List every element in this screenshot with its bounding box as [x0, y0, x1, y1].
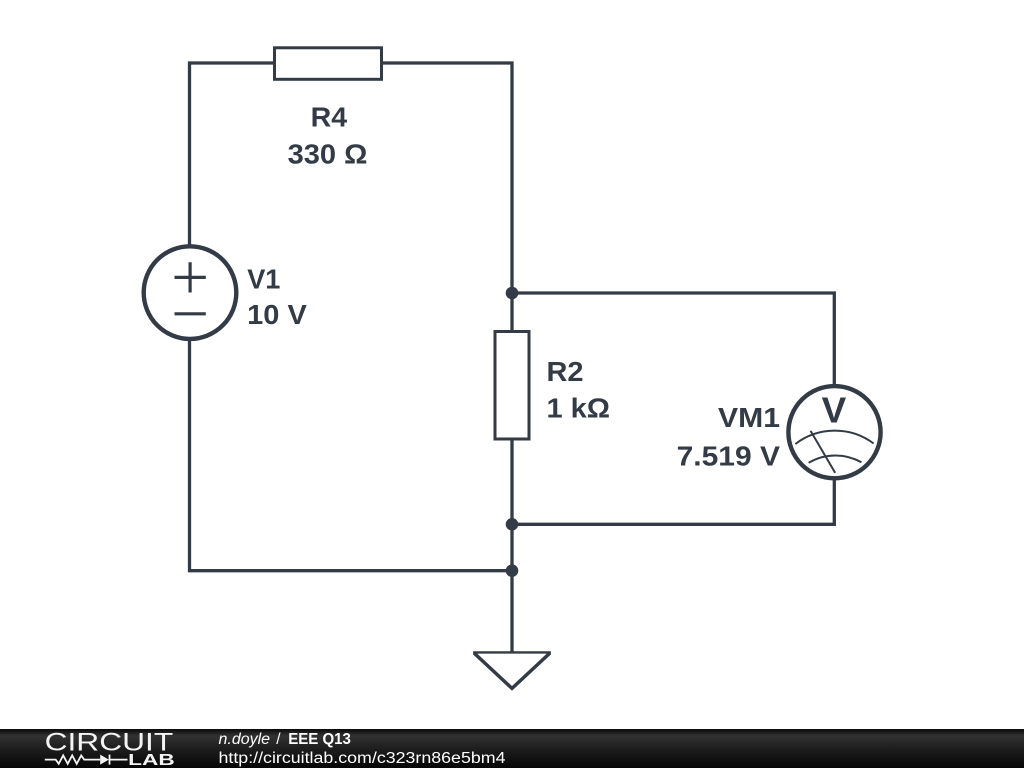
- node: [506, 518, 519, 531]
- svg-text:EEE Q13: EEE Q13: [288, 731, 351, 748]
- svg-text:n.doyle: n.doyle: [219, 731, 271, 748]
- ground: [473, 651, 551, 655]
- svg-text:1 kΩ: 1 kΩ: [547, 392, 611, 423]
- wire: [190, 63, 274, 247]
- svg-text:http://circuitlab.com/c323rn86: http://circuitlab.com/c323rn86e5bm4: [219, 750, 506, 767]
- svg-text:R2: R2: [547, 356, 584, 387]
- svg-text:/: /: [276, 731, 281, 748]
- wire: [510, 440, 513, 571]
- svg-text:R4: R4: [311, 102, 348, 133]
- node: [506, 564, 519, 577]
- wire: [512, 479, 834, 525]
- svg-text:VM1: VM1: [718, 402, 780, 433]
- resistor R4: [275, 48, 382, 80]
- resistor R2: [495, 332, 529, 440]
- wire: [510, 571, 513, 653]
- voltmeter VM1: [788, 386, 880, 478]
- wire: [512, 293, 834, 386]
- wire: [383, 63, 512, 330]
- svg-text:LAB: LAB: [128, 752, 175, 768]
- svg-text:V1: V1: [247, 264, 280, 295]
- footer bar: [0, 729, 1024, 768]
- node: [506, 287, 519, 300]
- svg-text:V: V: [822, 390, 847, 431]
- logo resistor-diode glyph: [45, 755, 128, 765]
- svg-text:330 Ω: 330 Ω: [288, 139, 368, 170]
- voltage source V1: [144, 246, 237, 339]
- wire: [190, 339, 513, 571]
- svg-text:10 V: 10 V: [247, 299, 307, 330]
- svg-text:7.519 V: 7.519 V: [677, 440, 781, 471]
